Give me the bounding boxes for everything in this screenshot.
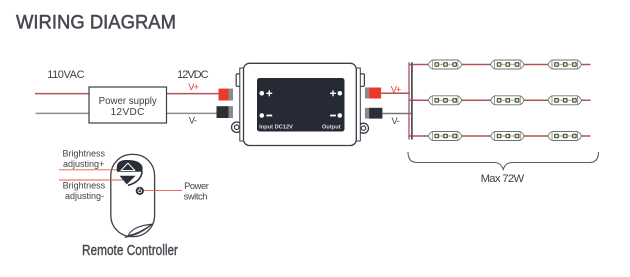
svg-text:Power supply: Power supply bbox=[99, 96, 157, 107]
svg-text:Brightness: Brightness bbox=[63, 149, 106, 159]
svg-text:Power: Power bbox=[184, 181, 209, 191]
svg-text:adjusting+: adjusting+ bbox=[63, 159, 104, 169]
svg-text:adjusting-: adjusting- bbox=[65, 191, 104, 201]
svg-text:WIRING DIAGRAM: WIRING DIAGRAM bbox=[16, 12, 176, 34]
svg-text:110VAC: 110VAC bbox=[47, 69, 84, 81]
svg-text:V-: V- bbox=[189, 116, 197, 126]
svg-text:Output: Output bbox=[322, 124, 341, 130]
svg-text:switch: switch bbox=[184, 192, 208, 202]
svg-text:Brightness: Brightness bbox=[63, 181, 106, 191]
svg-text:Remote Controller: Remote Controller bbox=[82, 242, 178, 259]
svg-text:Max 72W: Max 72W bbox=[481, 173, 525, 185]
svg-text:12VDC: 12VDC bbox=[111, 107, 145, 118]
svg-text:Input DC12V: Input DC12V bbox=[259, 124, 293, 130]
svg-text:V+: V+ bbox=[188, 82, 198, 92]
svg-text:12VDC: 12VDC bbox=[177, 69, 209, 81]
svg-text:V-: V- bbox=[392, 116, 400, 126]
svg-text:V+: V+ bbox=[391, 84, 401, 94]
